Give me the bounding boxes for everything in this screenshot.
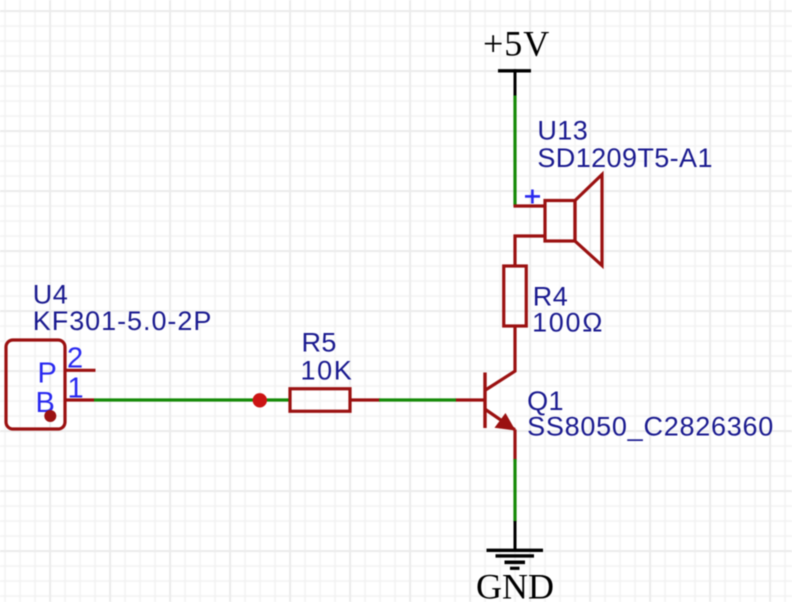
speaker U13 pin 2 — [515, 236, 545, 268]
connector U4 pin 2 — [65, 369, 96, 372]
svg-text:+5V: +5V — [483, 24, 550, 64]
resistor R5 — [290, 389, 380, 412]
speaker U13 pin 1 — [514, 204, 546, 207]
svg-text:U13: U13 — [537, 116, 588, 146]
svg-text:U4: U4 — [33, 280, 68, 310]
wire +5V to speaker pin 1 — [513, 96, 516, 207]
wire R4 to Q1 collector — [513, 326, 516, 372]
svg-text:1: 1 — [68, 373, 84, 405]
connector U4 polarity dot — [44, 410, 56, 422]
speaker U13 plus marker — [525, 190, 540, 204]
resistor R4 — [504, 266, 527, 326]
junction node — [253, 393, 267, 407]
svg-text:10K: 10K — [301, 356, 354, 386]
wire Q1 emitter to GND — [513, 459, 516, 522]
svg-text:SD1209T5-A1: SD1209T5-A1 — [537, 143, 713, 173]
power +5V — [483, 24, 550, 97]
speaker U13 body — [545, 175, 602, 266]
wire R5 to Q1 base — [379, 398, 456, 401]
svg-text:KF301-5.0-2P: KF301-5.0-2P — [33, 306, 213, 336]
svg-text:GND: GND — [476, 567, 554, 602]
wire U4 pin1 to R5 — [94, 398, 289, 401]
connector U4 body — [6, 340, 65, 429]
transistor Q1 — [456, 371, 516, 460]
svg-text:100Ω: 100Ω — [532, 308, 604, 338]
connector U4 pin 1 — [65, 398, 94, 401]
svg-text:SS8050_C2826360: SS8050_C2826360 — [527, 412, 774, 442]
svg-text:2: 2 — [67, 343, 83, 375]
svg-text:R5: R5 — [302, 328, 337, 358]
ground — [487, 521, 544, 568]
svg-text:P: P — [38, 358, 57, 390]
